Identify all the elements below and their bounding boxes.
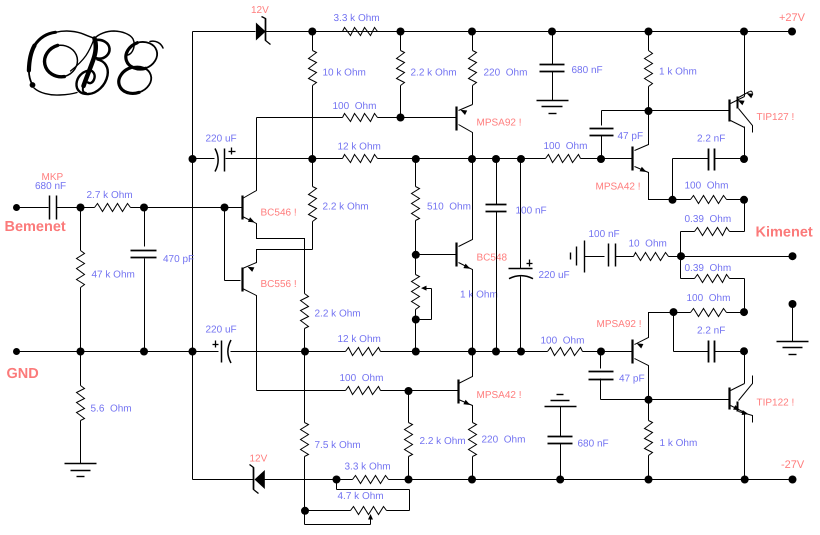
capacitor 680nF (bottom) [560,407,562,437]
node 100nF bottom [492,348,500,356]
svg-text:BC556 !: BC556 ! [261,279,297,290]
svg-text:10 k Ohm: 10 k Ohm [323,68,366,79]
terminal Kimenet [789,252,797,260]
wire zobel gnd to 100nF [585,256,605,258]
svg-text:2.2 k Ohm: 2.2 k Ohm [315,309,361,320]
node 220uF bottom [517,348,525,356]
wire 100nF to 10 Ohm [616,256,634,258]
transistor BC548 collector [459,159,473,247]
node after 2.7k [140,204,148,212]
node BC546 base [221,204,229,212]
svg-text:100 nF: 100 nF [589,229,620,240]
wire 2.7k to BC546 base [131,207,242,209]
capacitor 220uF (lower left, polarized) [221,341,223,363]
node mid row 220uF [517,155,525,163]
ground symbol (top 680nF) [537,100,569,102]
capacitor 47pF (top) [601,111,603,126]
wire 12k to mid row [378,158,546,160]
svg-text:TIP122 !: TIP122 ! [757,398,795,409]
node mid row 510 [412,155,420,163]
svg-text:1 k Ohm: 1 k Ohm [460,290,498,301]
transistor MPSA92 (lower) collector [635,359,649,400]
wire BC546 base stub down [224,208,226,281]
transistor TIP127 darlington [728,100,730,122]
svg-text:TIP127 !: TIP127 ! [757,112,795,123]
resistor 1k (lower) [648,400,650,421]
svg-text:100 Ohm: 100 Ohm [541,336,585,347]
node bottom rail 680nF [556,476,564,484]
svg-text:0.39 Ohm: 0.39 Ohm [685,214,732,225]
svg-text:2.7 k Ohm: 2.7 k Ohm [87,190,133,201]
transistor MPSA42 (top) emitter [635,167,673,200]
wire y399 row [601,399,730,401]
transistor BC548 emitter [459,263,473,352]
node top rail TIP127 [740,28,748,36]
node output junction [677,252,685,260]
node GND mid (2.2k/7.5k) [301,348,309,356]
node input R divider [77,204,85,212]
capacitor 100nF (zobel) [608,244,610,267]
wire TIP122 collector [744,352,746,384]
svg-text:2.2 nF: 2.2 nF [697,134,725,145]
transistor MPSA42 (lower) emitter [459,400,473,423]
node BC548 base [412,251,420,259]
transistor BC548 bar [455,243,457,267]
node top rail 2.2k [397,28,405,36]
node bottom rail stub [333,476,341,484]
svg-text:12V: 12V [251,5,269,16]
node GND left vertical [189,348,197,356]
wire output node to 0.39 lower [680,257,682,279]
wire TIP col to 0.39 [744,200,746,232]
node upper driver base [597,155,605,163]
node 1k bottom [645,107,653,115]
transistor BC556 collector [243,289,257,391]
transistor MPSA92 (top) emitter [459,105,473,111]
trimmer 1k wiper [421,286,427,291]
ground symbol (sideways, zobel) [570,253,572,260]
svg-text:2.2 k Ohm: 2.2 k Ohm [420,436,466,447]
resistor 220 Ohm (bottom) [469,423,477,457]
svg-text:470 pF: 470 pF [163,254,194,265]
terminal Bemenet [13,204,20,211]
svg-text:GND: GND [7,366,39,382]
svg-text:0.39 Ohm: 0.39 Ohm [685,263,732,274]
svg-text:3.3 k Ohm: 3.3 k Ohm [334,13,380,24]
resistor 1k (top) [648,32,650,51]
svg-text:47 pF: 47 pF [618,131,644,142]
wire left main vertical [192,32,194,480]
resistor 100 Ohm (fb top) [691,196,727,204]
wire 10 Ohm to Kimenet [669,256,793,258]
resistor 2.2k (lower mid) [301,294,309,329]
capacitor 220uF (mid, polarized) [520,159,522,269]
node 1k lower top [645,396,653,404]
wire BC556 emitter vert to lower 2.2k [304,250,306,294]
ground symbol (inverted, lower 680nF) [557,394,564,396]
resistor 510 Ohm [415,159,417,187]
wire TIP127 collector down [744,127,746,159]
resistor 0.39 Ohm (top) [695,228,730,236]
wire left to 220uF [193,158,215,160]
wire 100 Ohm to MPSA92 base [378,117,457,119]
svg-text:MPSA42 !: MPSA42 ! [596,182,641,193]
node 12k row left [308,155,316,163]
node bottom rail end [789,476,797,484]
node bottom rail 2.2k [405,476,413,484]
svg-text:47 k Ohm: 47 k Ohm [92,270,135,281]
node 2.2nF right top [740,155,748,163]
wire GND row left [17,351,219,353]
node MPSA42 lower base [405,387,413,395]
svg-text:7.5 k Ohm: 7.5 k Ohm [315,440,361,451]
node trimmer bottom row [412,348,420,356]
wire 100 Ohm to MPSA42 base [581,158,633,160]
resistor 100 Ohm (lower driver base) [548,348,583,356]
wire TIP122 emitter to rail [744,414,746,480]
wire 4.7k right loop [387,510,410,512]
wire 220uF to mid node [231,351,346,353]
wire BC548 base [416,254,457,256]
transistor BC556 bar [241,268,243,292]
resistor 1k trimmer [415,255,417,275]
svg-text:680 nF: 680 nF [578,439,609,450]
node GND 470pF [140,348,148,356]
resistor 2.7k [95,204,131,212]
capacitor 100nF (mid) [496,159,498,205]
terminal speaker ground [789,300,797,308]
transistor MPSA42 (top) collector [635,111,649,151]
node 100 fb left lower [670,308,678,316]
svg-text:100 Ohm: 100 Ohm [340,373,384,384]
node top rail end [788,28,796,36]
node bottom rail TIP122 [741,476,749,484]
svg-text:2.2 k Ohm: 2.2 k Ohm [323,202,369,213]
svg-text:100 Ohm: 100 Ohm [544,141,588,152]
node trimmer left [301,507,309,515]
wire 0.39 lower right [730,278,745,280]
resistor 4.7k trimmer [351,507,387,515]
svg-text:220 Ohm: 220 Ohm [482,435,526,446]
wire fb top ends [673,199,691,201]
transistor MPSA42 (lower) collector [459,352,473,384]
svg-text:1 k Ohm: 1 k Ohm [660,438,698,449]
node 2.2nF right lower [740,347,748,355]
wire bottom -27V rail left segment [193,479,254,481]
zener diode D1 12V (top) [256,23,266,41]
transistor MPSA42 (lower) bar [457,380,459,404]
node MPSA92 base junction [397,114,405,122]
svg-text:3.3 k Ohm: 3.3 k Ohm [345,462,391,473]
transistor MPSA42 (top) bar [631,147,633,171]
node mid row BC548col [468,155,476,163]
transistor MPSA92 (top) bar [455,107,457,131]
svg-text:12V: 12V [250,454,268,465]
svg-text:12 k Ohm: 12 k Ohm [338,142,381,153]
wire BC556 collector row y390 [257,390,346,392]
resistor 0.39 Ohm (lower) [695,275,730,283]
svg-text:BC546 !: BC546 ! [261,208,297,219]
svg-text:220 uF: 220 uF [206,134,237,145]
wire top +27V rail [266,31,793,33]
svg-text:12 k Ohm: 12 k Ohm [338,334,381,345]
wire fb lower ends [674,312,691,314]
svg-text:5.6 Ohm: 5.6 Ohm [91,404,132,415]
svg-text:680 nF: 680 nF [572,65,603,76]
resistor 100 Ohm (lower VAS base) [346,387,381,395]
wire +27V to TIP127 emitter [744,32,746,97]
node 100 fb right lower [740,308,748,316]
logo B8 [29,31,163,95]
wire y110 row [602,110,730,112]
svg-text:47 pF: 47 pF [619,374,645,385]
resistor 100 Ohm (fb lower) [691,309,727,317]
resistor 12k (upper) [343,155,378,163]
node top rail 1k [645,28,653,36]
capacitor 47pF (lower) [600,352,602,369]
resistor 47k vertical [80,208,82,251]
wire input to MKP cap [17,207,49,209]
svg-text:-27V: -27V [781,459,805,471]
node top rail 680nF [548,28,556,36]
resistor 10k [312,32,314,51]
wire y390 to MPSA42 base [381,390,458,392]
svg-text:MPSA42 !: MPSA42 ! [477,390,522,401]
node bottom rail 220 [468,476,476,484]
node GND 47k [77,348,85,356]
resistor 5.6 Ohm [80,352,82,386]
wire 220uF to 12k node [226,158,343,160]
resistor 7.5k [304,352,306,423]
svg-text:2.2 nF: 2.2 nF [697,326,725,337]
resistor 100 Ohm (upper driver base) [546,155,581,163]
resistor 12k (lower) [346,348,381,356]
svg-text:220 Ohm: 220 Ohm [484,68,528,79]
svg-text:2.2 k Ohm: 2.2 k Ohm [411,68,457,79]
transistor MPSA92 (lower) bar [631,340,633,364]
wire 2.2nF lower left [673,313,675,352]
capacitor 470pF [144,208,146,247]
resistor 3.3k (bottom rail) [353,476,389,484]
svg-text:1 k Ohm: 1 k Ohm [659,67,697,78]
resistor 2.2k (bottom) [408,391,410,423]
resistor 2.2k (mid) [312,159,314,187]
node bottom rail 1k [645,476,653,484]
svg-text:Bemenet: Bemenet [5,219,66,235]
wire speaker gnd stem [792,305,794,342]
transistor BC546 emitter [243,217,305,250]
svg-text:100 Ohm: 100 Ohm [685,181,729,192]
svg-text:4.7 k Ohm: 4.7 k Ohm [338,491,384,502]
resistor 3.3k (top rail) [343,28,378,36]
transistor TIP122 darlington [728,388,730,410]
ground symbol (speaker) [777,341,809,343]
wire trimmer left [305,510,351,512]
transistor BC556 emitter [243,250,313,269]
node left rail 220uF [189,155,197,163]
transistor BC546 collector [243,118,257,199]
svg-text:BC548: BC548 [477,253,508,264]
svg-text:510 Ohm: 510 Ohm [427,202,471,213]
trimmer 4.7k wiper [304,511,306,525]
resistor 2.2k (top) [400,32,402,51]
svg-text:+27V: +27V [779,12,806,24]
wire MKP to node [57,207,95,209]
node top rail 220 [468,28,476,36]
svg-text:Kimenet: Kimenet [756,225,813,241]
wire 12k to trimmer node [381,351,548,353]
transistor MPSA92 (top) collector [459,125,473,159]
node mid row 100nF [492,155,500,163]
svg-text:220 uF: 220 uF [539,270,570,281]
svg-text:100 Ohm: 100 Ohm [333,101,377,112]
ground symbol (input) [65,463,97,465]
svg-text:MPSA92 !: MPSA92 ! [477,118,522,129]
resistor 10 Ohm [634,253,669,261]
capacitor 2.2nF (top) [673,158,709,160]
resistor 100 Ohm (upper VAS base) [343,114,378,122]
capacitor 220uF (upper left, polarized) [215,149,218,172]
zener diode D2 12V (bottom) [255,470,265,489]
wire 2.2nF left down [672,159,674,200]
node 100 fb right top [740,196,748,204]
svg-text:100 Ohm: 100 Ohm [687,293,731,304]
wire 100 Ohm row y117 [257,117,343,119]
resistor 220 Ohm (top) [472,32,474,51]
capacitor MKP 680nF input [49,196,51,220]
wire 100 Ohm to MPSA92 base [583,351,633,353]
svg-text:MPSA92 !: MPSA92 ! [597,319,642,330]
node trimmer wiper junction [412,316,420,324]
svg-text:220 uF: 220 uF [206,325,237,336]
wire 0.39 top to output node [681,231,695,233]
capacitor 2.2nF (lower) [674,351,709,353]
wire bottom -27V rail mid [265,479,353,481]
capacitor 680nF (top) [552,32,554,65]
node BC548 emitter row [468,348,476,356]
transistor MPSA92 (lower) emitter [635,313,674,345]
svg-text:10 Ohm: 10 Ohm [629,239,667,250]
svg-text:680 nF: 680 nF [35,181,66,192]
node top rail 10k [308,28,316,36]
transistor BC546 bar [241,196,243,220]
wire bottom -27V rail right [389,479,793,481]
terminal GND [13,348,20,355]
wire top +27V rail left segment [193,31,256,33]
node lower driver base [597,348,605,356]
node 100 fb left top [669,196,677,204]
